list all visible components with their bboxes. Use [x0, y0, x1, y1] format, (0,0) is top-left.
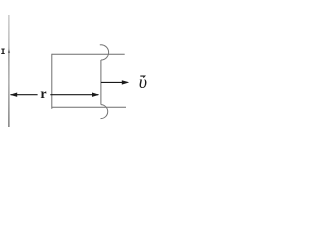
r dimension arrow: right arrowhead at rod — [92, 93, 99, 97]
bottom rail — [52, 106, 126, 108]
r dimension arrow: left shaft segment — [11, 94, 38, 96]
label I (current) — [1, 49, 5, 54]
wire: long straight vertical wire carrying current I — [8, 15, 10, 127]
left side conductor joining the rails — [51, 54, 53, 109]
velocity arrow shaft — [101, 81, 128, 83]
sliding rod (connector) — [100, 60, 102, 105]
harpoon (vector bar) above v label — [140, 76, 144, 78]
svg-text:r: r — [40, 87, 46, 102]
top hop arc of rod over top rail — [100, 45, 109, 60]
velocity arrowhead — [122, 80, 129, 84]
bottom hop arc of rod over bottom rail — [101, 105, 108, 119]
r dimension arrow: left arrowhead at wire — [10, 93, 17, 97]
r dimension arrow: right shaft segment — [50, 94, 98, 96]
current direction arrowhead on wire — [8, 49, 10, 53]
top rail — [52, 53, 125, 55]
svg-text:υ: υ — [139, 72, 147, 92]
